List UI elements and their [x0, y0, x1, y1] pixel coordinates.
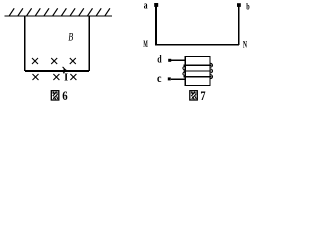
svg-text:I: I: [64, 72, 68, 83]
svg-text:d: d: [157, 54, 162, 65]
wire a down to M: [155, 7, 157, 45]
terminal d (square): [168, 59, 171, 62]
coil winding left loops: [183, 66, 185, 75]
wire b down to N: [238, 7, 240, 45]
wire M to N: [155, 44, 239, 46]
ceiling hatch marks: [9, 8, 110, 15]
wire left side of loop: [24, 16, 26, 71]
field cross row inside loop: [32, 58, 76, 64]
terminal c (square): [168, 77, 171, 80]
svg-text:7: 7: [200, 88, 206, 103]
coil winding front lines: [184, 65, 212, 77]
terminal a (square): [154, 3, 158, 7]
wire right side of loop: [88, 16, 90, 71]
ceiling line: [5, 15, 113, 17]
svg-text:c: c: [157, 73, 162, 85]
field cross row below loop: [33, 74, 77, 80]
wire c to coil: [171, 78, 185, 80]
current arrow: [64, 68, 68, 72]
svg-text:a: a: [144, 0, 148, 11]
svg-text:B: B: [68, 31, 73, 43]
svg-text:6: 6: [62, 88, 68, 103]
caption 图6 glyph box: [51, 91, 59, 100]
caption 图7 glyph box: [190, 91, 198, 100]
svg-text:M: M: [143, 40, 147, 50]
terminal b (square): [237, 3, 241, 7]
wire bottom of loop (current I): [25, 70, 89, 72]
svg-text:b: b: [246, 2, 249, 12]
coil winding right loops: [210, 63, 212, 78]
wire d to coil: [171, 59, 185, 61]
coil core rectangle: [185, 56, 210, 85]
svg-text:N: N: [243, 41, 247, 51]
